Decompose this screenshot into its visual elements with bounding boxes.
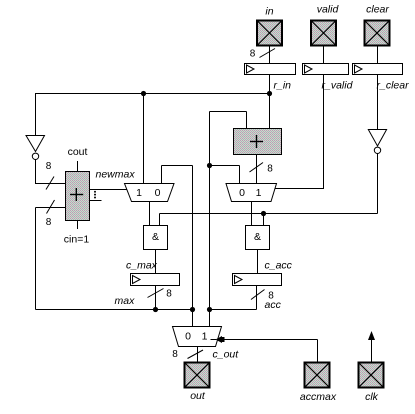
- bus slash acc output: [251, 290, 265, 300]
- inverter left not_r_in: [26, 136, 45, 160]
- svg-text:clear: clear: [366, 4, 389, 16]
- wire acc net to adder left input: [210, 112, 247, 327]
- bus slash inverter output: [46, 177, 54, 190]
- AND gate A1: [144, 226, 168, 250]
- svg-text:newmax: newmax: [96, 169, 136, 181]
- svg-text:&: &: [254, 231, 261, 243]
- bus slash c_out: [188, 350, 204, 359]
- wire mux M1 output to AND A1: [149, 202, 151, 227]
- arrowhead clk: [368, 331, 375, 340]
- svg-text:cout: cout: [68, 146, 88, 158]
- bus slash max output: [148, 289, 164, 298]
- svg-text:1: 1: [202, 331, 208, 343]
- wire AND A1 output c_max: [155, 250, 157, 274]
- register r_clear: [353, 64, 403, 75]
- svg-text:valid: valid: [317, 4, 340, 16]
- bus slash adder output: [250, 163, 264, 173]
- wire adder output to mux M2 input 1: [256, 154, 258, 184]
- AND gate A2: [246, 226, 270, 250]
- svg-text:c_out: c_out: [213, 349, 240, 361]
- svg-text:8: 8: [250, 49, 256, 60]
- port accmax: [305, 363, 330, 388]
- svg-text:c_max: c_max: [126, 260, 158, 272]
- truncation dots: [94, 191, 96, 199]
- svg-text:0: 0: [185, 331, 191, 343]
- junction acc bus branch: [207, 307, 212, 312]
- inverter right not_clear: [368, 130, 386, 154]
- wire valid port to r_valid: [323, 46, 325, 64]
- mux M3: [173, 327, 222, 347]
- port clk: [359, 363, 384, 388]
- port valid: [311, 21, 336, 46]
- svg-text:&: &: [152, 231, 159, 243]
- wire AND A2 output c_acc: [257, 250, 259, 274]
- svg-text:8: 8: [46, 217, 52, 228]
- wire c_max register output to max bus: [155, 286, 157, 310]
- wire top horizontal r_in net: [36, 93, 270, 135]
- wire clear port to r_clear: [377, 46, 379, 64]
- adder U2: [234, 129, 282, 155]
- svg-text:8: 8: [268, 291, 274, 302]
- svg-text:out: out: [190, 390, 206, 402]
- mux M1: [125, 184, 175, 202]
- svg-text:1: 1: [136, 187, 142, 199]
- svg-text:r_clear: r_clear: [377, 80, 410, 92]
- wire acc register output to acc bus: [210, 286, 257, 310]
- svg-text:clk: clk: [365, 391, 379, 403]
- wire r_valid to mux M2 select: [275, 75, 324, 190]
- wire mux M3 output to out port: [197, 347, 199, 363]
- wire in port to r_in: [269, 46, 271, 64]
- wire inverter output to comparator upper input: [36, 160, 66, 185]
- svg-text:1: 1: [256, 187, 262, 199]
- register r_in: [245, 64, 296, 75]
- junction not_clear tap: [261, 211, 266, 216]
- junction max reg output: [153, 307, 158, 312]
- svg-text:8: 8: [267, 164, 273, 175]
- port clear: [365, 21, 390, 46]
- mux M2: [226, 184, 277, 202]
- junction max bus branch: [190, 307, 195, 312]
- wire max to comparator lower input: [36, 208, 66, 310]
- svg-text:cin=1: cin=1: [64, 234, 90, 246]
- wire mux M2 output to AND A2: [251, 202, 253, 227]
- svg-text:accmax: accmax: [300, 391, 337, 403]
- svg-text:8: 8: [166, 289, 172, 300]
- wire newmax comparator output to mux M1 select: [90, 189, 128, 191]
- wire comparator sum stub: [90, 200, 102, 202]
- svg-text:8: 8: [46, 161, 52, 172]
- port in: [257, 21, 282, 46]
- port out: [185, 363, 210, 388]
- register r_valid: [303, 64, 349, 75]
- bus slash max input: [47, 200, 55, 214]
- junction acc tap: [207, 163, 212, 168]
- junction r_in: [267, 91, 272, 96]
- svg-text:max: max: [115, 295, 136, 307]
- register max: [131, 274, 180, 286]
- svg-text:c_acc: c_acc: [265, 260, 293, 272]
- arrowhead accmax select: [216, 336, 223, 343]
- wire max riser to mux M1 input 0: [162, 166, 193, 327]
- svg-text:in: in: [265, 6, 273, 18]
- comparator U1 subtract: [66, 161, 90, 229]
- bus slash in: [260, 49, 276, 58]
- svg-text:0: 0: [155, 187, 161, 199]
- wire r_in output down to adder: [269, 75, 271, 129]
- wire not_clear line to AND gates: [160, 153, 378, 226]
- wire r_clear to inverter: [377, 75, 379, 130]
- svg-text:r_in: r_in: [274, 80, 292, 92]
- svg-text:8: 8: [172, 349, 178, 360]
- svg-text:0: 0: [239, 187, 245, 199]
- wire max bus horizontal: [36, 309, 193, 311]
- wire acc tap to mux M2 input 0: [210, 166, 240, 184]
- svg-text:r_valid: r_valid: [322, 80, 354, 92]
- wire accmax to mux M3 select: [222, 340, 318, 363]
- wire clk stub: [371, 339, 373, 363]
- register acc: [233, 274, 282, 286]
- junction top branch: [141, 91, 146, 96]
- wire r_in branch to mux M1 input 1: [143, 94, 145, 184]
- wire not_clear tap to AND A2: [263, 214, 265, 227]
